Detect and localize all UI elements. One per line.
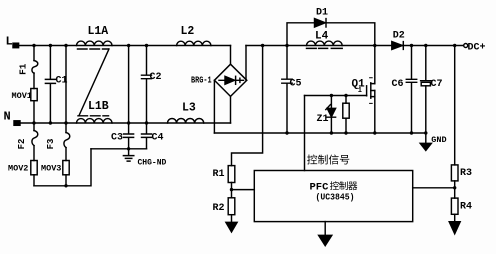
choke coupling diagonal: [79, 49, 109, 116]
junction C3 N rail: [127, 121, 130, 124]
capacitor C6: [406, 46, 416, 134]
varistor MOV3: [63, 161, 69, 175]
wire bridge minus drop: [213, 80, 215, 133]
wire chassis earth line: [91, 148, 147, 150]
junction MOV bus node: [64, 184, 67, 187]
inductor L3: [168, 118, 204, 123]
terminal L: [13, 43, 19, 48]
resistor R2: [228, 198, 235, 215]
fuse F2: [32, 131, 38, 146]
svg-text:C6: C6: [392, 79, 404, 90]
wire Y-branch / fuse F3 column at x=66: [65, 46, 67, 186]
common-mode choke L1B: [77, 119, 113, 123]
junction Z1 gate line: [330, 94, 333, 97]
common-mode choke L1A: [77, 41, 113, 45]
junction R3 top rail: [453, 44, 456, 47]
svg-text:N: N: [4, 110, 11, 124]
varistor MOV2: [31, 161, 37, 175]
wire sense divider drop (bridge+ to R1): [232, 46, 263, 166]
ground arrow below R2: [231, 215, 233, 223]
boost inductor L4: [307, 41, 343, 45]
capacitor C3 branch: [124, 46, 134, 149]
diode D1: [315, 19, 326, 27]
junction C1 top rail: [49, 44, 52, 47]
junction C3-branch top rail: [127, 44, 130, 47]
junction sense-divider top rail: [261, 44, 264, 47]
wire L-column stubs: [33, 46, 35, 186]
resistor R4: [451, 198, 458, 214]
ground arrow below R4: [449, 222, 460, 234]
svg-text:F3: F3: [46, 139, 56, 150]
diode D2: [392, 42, 403, 50]
resistor/varistor MOV1: [31, 89, 37, 101]
transistor Q1 (MOSFET): [366, 86, 368, 96]
ground arrow below PFC box: [324, 222, 326, 236]
junction C6 ground rail: [410, 131, 413, 134]
svg-text:L4: L4: [315, 31, 329, 43]
wire gate drive line: [305, 95, 367, 97]
label 控制信号 (control signal): [307, 155, 349, 165]
svg-text:DC+: DC+: [468, 42, 486, 53]
junction earth line node: [127, 147, 130, 150]
svg-text:BRG-1: BRG-1: [191, 75, 212, 85]
junction gate resistor gate line: [344, 94, 347, 97]
junction gate resistor ground rail: [344, 131, 347, 134]
junction MOV1/F2 N rail: [32, 121, 35, 124]
svg-text:Z1: Z1: [317, 114, 329, 125]
svg-text:MOV1: MOV1: [12, 91, 32, 101]
wire R1-R2 junction to PFC box: [232, 183, 255, 198]
junction C2/C4 N rail: [145, 121, 148, 124]
zener Z1: [330, 96, 332, 134]
svg-text:R4: R4: [460, 202, 472, 213]
junction Q1 source ground rail: [373, 131, 376, 134]
svg-text:L3: L3: [182, 102, 196, 115]
capacitor C2: [142, 46, 152, 124]
gate resistor: [345, 96, 347, 134]
svg-text:R2: R2: [213, 203, 225, 214]
resistor R1: [228, 166, 235, 183]
junction F1 top rail: [32, 44, 35, 47]
svg-text:C5: C5: [290, 79, 302, 90]
bridge rectifier BRG-1: [214, 64, 246, 96]
core dashes L1A: [78, 48, 109, 50]
core dashes L4: [307, 47, 343, 49]
wire PFC to R3R4 junction: [413, 187, 455, 189]
diode inside bridge: [219, 79, 244, 81]
inductor L2: [177, 41, 211, 45]
svg-text:C7: C7: [431, 79, 443, 90]
Q1 pin ticks: [370, 78, 373, 104]
svg-text:D1: D1: [316, 8, 328, 19]
junction Z1 ground rail: [330, 131, 333, 134]
junction C6 top rail: [410, 44, 413, 47]
capacitor C5: [282, 46, 292, 134]
plus mark in bridge: [239, 78, 241, 82]
chassis ground symbol CHG-ND: [123, 149, 133, 161]
junction F3-branch top rail: [64, 44, 67, 47]
svg-text:L: L: [6, 35, 13, 49]
wire control signal drop to PFC: [304, 96, 306, 171]
fuse F3: [64, 133, 70, 148]
fuse F1: [32, 61, 38, 74]
wire ground rail (DC-): [214, 132, 425, 134]
resistor R3: [451, 165, 458, 181]
svg-text:R1: R1: [213, 169, 225, 180]
junction D1/Q1-drain top rail: [373, 44, 376, 47]
label 控制器 (of PFC controller): [330, 181, 357, 190]
capacitor C1: [45, 46, 55, 124]
diode D1 bypass loop: [287, 23, 375, 46]
capacitor C7 (electrolytic): [421, 46, 431, 134]
svg-text:R3: R3: [460, 168, 472, 179]
PFC controller box U1: [254, 171, 412, 222]
wire top rail right (bridge out to DC+): [246, 45, 464, 47]
wire top rail left (L to bridge top): [19, 45, 231, 47]
junction C7 ground rail: [424, 131, 427, 134]
svg-text:C1: C1: [56, 76, 68, 87]
svg-text:F1: F1: [18, 63, 29, 75]
svg-text:GND: GND: [431, 135, 446, 145]
terminal N: [14, 121, 20, 126]
wire N rail: [20, 122, 231, 124]
svg-text:L2: L2: [181, 25, 195, 38]
svg-text:MOV3: MOV3: [41, 164, 61, 174]
wire output divider drop: [454, 46, 456, 222]
junction C7 top rail: [424, 44, 427, 47]
junction C5 ground rail: [285, 131, 288, 134]
junction R3-R4 node: [453, 186, 456, 189]
junction R1-R2 node: [230, 188, 233, 191]
svg-text:C2: C2: [150, 72, 162, 83]
svg-text:D2: D2: [393, 31, 405, 42]
svg-text:CHG-ND: CHG-ND: [138, 159, 167, 168]
wire bridge top riser: [230, 46, 232, 65]
svg-text:L1B: L1B: [88, 100, 109, 113]
wire Q1 source drop: [374, 91, 376, 134]
svg-text:1: 1: [358, 87, 362, 95]
svg-text:C3: C3: [111, 132, 123, 143]
svg-text:F2: F2: [17, 139, 27, 150]
junction F3 N rail: [64, 121, 67, 124]
junction C5/D1 top rail: [285, 44, 288, 47]
svg-text:C4: C4: [152, 132, 164, 143]
junction C2 top rail: [145, 44, 148, 47]
svg-text:L1A: L1A: [88, 25, 109, 38]
core dashes L1B: [78, 115, 109, 117]
capacitor C4 (below C2): [142, 123, 152, 149]
wire bridge bottom riser: [230, 96, 232, 123]
wire bridge plus riser: [245, 46, 247, 81]
wire MOV bottom bus: [34, 149, 91, 186]
junction C1 N rail: [49, 121, 52, 124]
svg-text:MOV2: MOV2: [8, 164, 28, 174]
wire Q1 drain riser: [374, 46, 376, 84]
terminal DC+ circle: [464, 44, 468, 48]
svg-text:PFC: PFC: [310, 181, 330, 193]
GND arrow below C7: [425, 133, 427, 143]
